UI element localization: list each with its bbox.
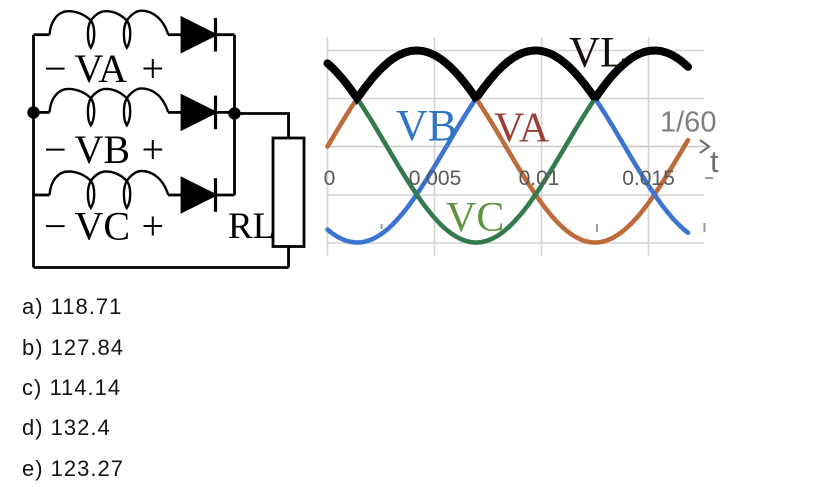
chart gridlines [327, 38, 704, 256]
svg-text:−VA+: −VA+ [44, 46, 164, 91]
svg-text:t: t [710, 144, 719, 179]
node: cathode bus junction [228, 107, 240, 119]
inductor winding VA [50, 11, 169, 48]
svg-text:VL: VL [569, 30, 626, 77]
wire: RL bottom to bottom rail [287, 247, 290, 268]
wire: branch A stub [34, 33, 50, 36]
svg-text:−VB+: −VB+ [44, 127, 164, 172]
svg-text:0.015: 0.015 [622, 167, 675, 190]
diode D3 [182, 179, 215, 212]
resistor RL [273, 138, 304, 247]
tick under t [705, 177, 713, 179]
svg-text:VA: VA [494, 106, 550, 152]
wire: coil VB to diode D2 [168, 111, 182, 114]
wire: cathode bus [233, 35, 236, 195]
wire: branch C stub [34, 194, 50, 197]
chart axis arrowhead [700, 140, 709, 153]
inductor winding VB [50, 88, 169, 125]
wire: diode D3 to cathode bus [216, 194, 235, 197]
wire: cathode bus to load RL [235, 114, 289, 139]
node: left bus junction [27, 106, 39, 118]
curve VL (rectified output envelope) [328, 51, 689, 99]
inductor winding VC [50, 171, 169, 208]
svg-text:1/60: 1/60 [660, 107, 716, 139]
diode D1 [182, 18, 215, 51]
svg-text:VB: VB [396, 101, 457, 150]
curve VA (phase A sine) [328, 51, 689, 243]
svg-text:−VC+: −VC+ [44, 204, 164, 249]
wire: diode D2 to cathode bus [216, 111, 235, 114]
chart time axis line [327, 146, 708, 148]
curve VB (phase B sine) [328, 51, 689, 243]
wire: coil VC to diode D3 [168, 194, 182, 197]
wire: diode D1 to cathode bus [216, 33, 235, 36]
chart minor tick marks [382, 223, 705, 232]
svg-text:VC: VC [446, 195, 504, 241]
wire: coil VA to diode D1 [168, 33, 182, 36]
curve VC (phase C sine) [328, 51, 689, 243]
svg-text:RL: RL [228, 206, 275, 247]
diode D2 [182, 96, 215, 129]
svg-text:0: 0 [324, 167, 336, 190]
svg-text:0.005: 0.005 [409, 167, 462, 190]
wire: branch B stub [34, 111, 50, 114]
wire: bottom rail [34, 266, 289, 269]
svg-text:0.01: 0.01 [519, 167, 560, 190]
wire: left bus [32, 35, 35, 268]
